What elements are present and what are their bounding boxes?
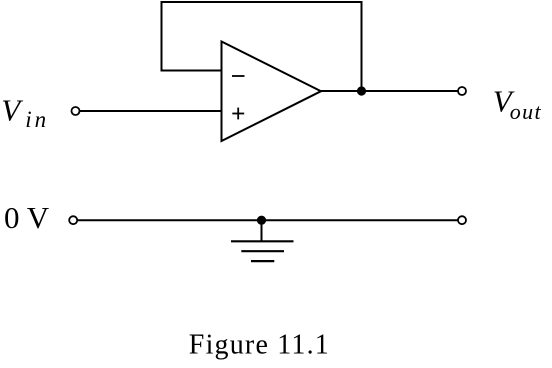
terminal 0V right (open circle): [458, 216, 466, 224]
op-amp U1: [222, 42, 322, 142]
svg-text:0 V: 0 V: [4, 200, 50, 235]
svg-text:in: in: [25, 107, 46, 132]
terminal 0V left (open circle): [69, 216, 77, 224]
terminal Vin (open circle): [72, 107, 80, 115]
node junction dot at output/feedback: [357, 86, 366, 95]
svg-text:V: V: [1, 92, 23, 127]
svg-text:out: out: [510, 99, 542, 124]
wire 0V rail: [78, 219, 458, 221]
pin label minus (inverting input): [232, 75, 245, 77]
svg-text:Figure 11.1: Figure 11.1: [189, 330, 329, 361]
wire feedback loop from output node to inverting input: [162, 2, 362, 88]
wire input Vin to plus input: [80, 110, 222, 112]
wire op-amp output to Vout terminal: [321, 90, 458, 92]
terminal Vout (open circle): [458, 87, 466, 95]
pin label plus (non-inverting input): [232, 108, 244, 120]
ground: [231, 220, 294, 261]
node junction dot on 0V rail: [257, 216, 266, 225]
